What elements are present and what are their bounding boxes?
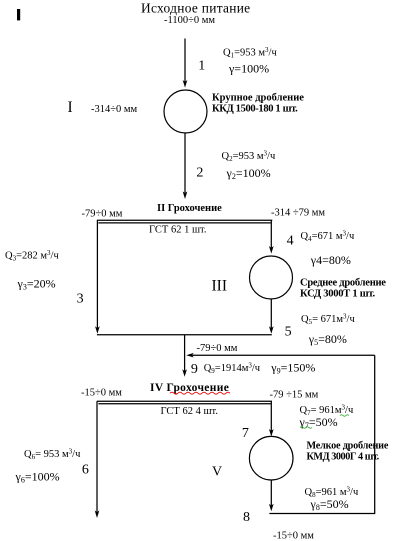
svg-text:4: 4: [287, 234, 294, 249]
svg-text:II Грохочение: II Грохочение: [157, 203, 222, 214]
wire stream 7 vertical: [270, 401, 272, 431]
svg-text:γ4=80%: γ4=80%: [310, 253, 351, 267]
svg-text:I: I: [68, 99, 73, 116]
svg-text:Среднее дробление: Среднее дробление: [300, 277, 386, 288]
svg-text:7: 7: [242, 426, 249, 441]
arrowhead stream 4: [269, 246, 274, 254]
screen IV second line: [98, 403, 270, 405]
svg-text:1: 1: [198, 58, 205, 73]
wire stream 1 vertical: [184, 39, 186, 83]
spellcheck squiggle green under ч of Q7: [340, 415, 349, 417]
crusher I circle: [164, 90, 207, 133]
arrowhead stream 7: [269, 429, 274, 437]
arrowhead stream 1: [183, 80, 188, 88]
svg-text:-314 ÷79 мм: -314 ÷79 мм: [271, 208, 325, 219]
wire stream 5 vertical: [270, 299, 272, 329]
arrowhead stream 5: [269, 326, 274, 334]
svg-text:Q1=953 м3/ч: Q1=953 м3/ч: [223, 46, 277, 60]
screen IV top line: [97, 400, 272, 402]
wire stream 9 vertical: [184, 335, 186, 372]
wire stream 8 bottom horizontal: [269, 513, 375, 515]
svg-text:-15÷0 мм: -15÷0 мм: [273, 531, 314, 541]
svg-text:КМД 3000Г 4 шт.: КМД 3000Г 4 шт.: [307, 451, 380, 462]
spellcheck squiggle under Грохочение: [170, 392, 230, 394]
arrowhead stream 9: [182, 369, 187, 377]
svg-text:γ9=150%: γ9=150%: [270, 361, 315, 376]
spellcheck squiggle green under gamma7: [300, 427, 312, 429]
svg-text:3: 3: [77, 292, 84, 307]
svg-text:γ6=100%: γ6=100%: [15, 470, 60, 485]
wire stream 3 vertical: [96, 220, 98, 328]
svg-text:ККД 1500-180 1 шт.: ККД 1500-180 1 шт.: [212, 103, 298, 114]
wire recycle vertical right: [374, 355, 376, 513]
svg-text:Исходное питание: Исходное питание: [141, 0, 250, 15]
wire stream 4 vertical: [270, 220, 272, 248]
svg-text:γ5=80%: γ5=80%: [308, 332, 347, 347]
svg-text:Q2=953 м3/ч: Q2=953 м3/ч: [222, 149, 276, 163]
svg-text:Q5= 671м3/ч: Q5= 671м3/ч: [301, 313, 355, 327]
svg-text:-79÷0 мм: -79÷0 мм: [197, 343, 238, 354]
wire stream 8 vertical: [270, 480, 272, 507]
svg-text:Q6= 953 м3/ч: Q6= 953 м3/ч: [24, 447, 81, 461]
svg-text:γ=100%: γ=100%: [228, 62, 269, 76]
crusher III circle: [250, 256, 293, 299]
arrowhead recycle left: [186, 353, 194, 358]
svg-text:Крупное дробление: Крупное дробление: [212, 93, 304, 104]
svg-text:ГСТ 62 1 шт.: ГСТ 62 1 шт.: [149, 225, 206, 236]
svg-text:Q9=1914м3/ч: Q9=1914м3/ч: [204, 362, 261, 376]
crusher V circle: [249, 436, 293, 480]
svg-text:КСД 3000Т 1 шт.: КСД 3000Т 1 шт.: [300, 289, 375, 300]
svg-text:2: 2: [196, 166, 203, 181]
screen II second line: [98, 222, 270, 224]
svg-text:γ3=20%: γ3=20%: [17, 276, 56, 291]
svg-text:Q4=671 м3/ч: Q4=671 м3/ч: [301, 230, 355, 244]
svg-text:9: 9: [191, 362, 198, 377]
screen II top line: [97, 219, 272, 221]
wire collector line screen II: [97, 334, 272, 336]
svg-text:-314÷0 мм: -314÷0 мм: [91, 104, 138, 115]
svg-text:ГСТ 62 4 шт.: ГСТ 62 4 шт.: [161, 406, 218, 417]
svg-text:III: III: [212, 277, 228, 294]
wire stream 2 vertical: [184, 133, 186, 194]
arrowhead stream 6: [95, 510, 100, 518]
svg-text:8: 8: [243, 510, 250, 525]
svg-text:-15÷0 мм: -15÷0 мм: [81, 388, 122, 399]
svg-text:-79÷0 мм: -79÷0 мм: [82, 209, 123, 220]
svg-text:-79 ÷15 мм: -79 ÷15 мм: [270, 389, 319, 400]
arrowhead stream 8: [269, 504, 274, 512]
arrowhead stream 3: [95, 326, 100, 334]
svg-text:5: 5: [285, 324, 292, 339]
svg-text:6: 6: [82, 462, 89, 477]
svg-text:γ7=50%: γ7=50%: [299, 415, 338, 430]
svg-text:γ2=100%: γ2=100%: [226, 166, 271, 181]
wire stream 6 vertical: [96, 401, 98, 513]
svg-text:-1100÷0 мм: -1100÷0 мм: [164, 15, 215, 26]
svg-text:Мелкое дробление: Мелкое дробление: [307, 440, 389, 451]
cursor bar I top-left: [17, 9, 20, 20]
arrowhead stream 2: [183, 191, 188, 199]
svg-text:γ8=50%: γ8=50%: [310, 497, 349, 512]
wire recycle horizontal: [191, 354, 375, 356]
svg-text:Q3=282 м3/ч: Q3=282 м3/ч: [5, 249, 59, 263]
svg-text:V: V: [212, 464, 222, 479]
